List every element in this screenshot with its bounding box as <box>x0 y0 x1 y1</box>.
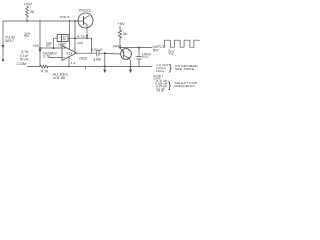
node C3 label (two lines) <box>142 52 151 59</box>
node U1 inside label <box>66 52 72 56</box>
wire bias branch x=104.8 <box>104 53 106 66</box>
node junction dot collector/output <box>119 47 121 49</box>
wire Q2 base <box>105 53 121 55</box>
svg-text:1.4: 1.4 <box>71 62 77 65</box>
svg-text:+5V: +5V <box>24 2 34 6</box>
node note 1 <box>175 64 198 71</box>
svg-text:COM: COM <box>17 62 27 66</box>
node R2 label (two lines) <box>43 51 58 58</box>
svg-text:INPUT: INPUT <box>5 39 14 43</box>
svg-text:CRYS: CRYS <box>58 44 64 48</box>
wire output y=47.6 <box>120 47 152 49</box>
node Q2 label <box>113 45 122 49</box>
node left 3-line label block <box>20 50 29 62</box>
svg-text:}: } <box>168 80 172 91</box>
svg-text:4.7k: 4.7k <box>41 70 49 74</box>
svg-text:+5V: +5V <box>117 22 126 26</box>
node brace 2 <box>168 80 172 91</box>
resistor R2 divider lower (vertical, x=40) <box>39 48 42 67</box>
wire top rail y=21 <box>3 20 84 22</box>
node input arrowhead <box>2 45 5 49</box>
svg-text:}: } <box>169 63 173 74</box>
resistor R3 collector load (vertical, x=120) <box>118 30 121 48</box>
node frequency list group 1 <box>156 63 169 73</box>
node label +5V at divider node <box>32 44 40 48</box>
svg-text:.05 uF: .05 uF <box>156 89 165 93</box>
node junction dot feedback/rail <box>74 20 76 22</box>
svg-text:+5V: +5V <box>32 44 40 48</box>
svg-text:5%: 5% <box>24 34 30 38</box>
transistor Q1 collector stroke <box>84 16 90 19</box>
node +5V supply label (right) <box>117 22 126 26</box>
svg-text:NPO: NPO <box>46 44 51 47</box>
node U1 pin label <box>71 62 77 65</box>
node junction dot crystal branch <box>53 47 55 49</box>
svg-text:220: 220 <box>77 41 83 45</box>
svg-text:1/4 W: 1/4 W <box>53 76 66 80</box>
node input label (two lines) <box>5 36 16 43</box>
svg-text:LM311: LM311 <box>79 56 88 60</box>
op-amp U1 minus sign <box>63 57 65 59</box>
wire noninverting input y=48 <box>40 47 62 49</box>
node junction dot emitter/rail <box>130 66 132 68</box>
capacitor C3 output plate bottom <box>137 58 142 60</box>
node junction dot R1/rail <box>26 20 28 22</box>
capacitor C2 coupling plate right <box>98 50 100 56</box>
node junction dot bias/rail <box>104 66 106 68</box>
svg-text:PIN 8: PIN 8 <box>60 15 70 19</box>
wire input column x=3 <box>2 21 4 59</box>
transistor Q2 circle <box>121 49 132 60</box>
node input terminal dot <box>2 59 4 61</box>
transistor Q1 base bar <box>83 17 85 25</box>
svg-text:MYLAR: MYLAR <box>20 58 29 62</box>
transistor Q2 collector lead <box>120 48 124 53</box>
node junction dot noninverting input <box>39 47 41 49</box>
wire inverting input y=57.5 <box>49 57 62 59</box>
svg-text:0.01uF: 0.01uF <box>91 48 103 52</box>
node note below rail (two lines) <box>53 73 69 80</box>
node junction dot output cap <box>138 47 140 49</box>
wire divider column x=40 upper <box>39 21 41 48</box>
ground symbol left (x=104.8) <box>103 67 106 74</box>
node +5V supply label (top left) <box>24 2 34 6</box>
node junction dot feedback <box>74 37 76 39</box>
resistor R1 pull-up (vertical, x=27) <box>26 7 29 22</box>
op-amp U1 triangle <box>62 46 77 61</box>
transistor Q2 base bar <box>123 51 125 57</box>
wire Q2 emitter lead <box>129 58 130 66</box>
svg-text:100 k: 100 k <box>156 69 165 73</box>
wire U1 ground pin <box>68 57 70 67</box>
node header label group 2 <box>153 74 164 81</box>
svg-text:4.7k: 4.7k <box>77 34 86 38</box>
capacitor C2 coupling plate left <box>96 50 98 56</box>
wire stub below rail <box>85 67 87 69</box>
svg-text:SEE TABLE: SEE TABLE <box>175 67 195 71</box>
ground symbol right (x=130.5) <box>129 67 132 74</box>
wire crystal to feedback node <box>68 37 75 39</box>
svg-text:TTL: TTL <box>169 52 175 56</box>
transistor Q1 circle <box>78 13 93 28</box>
node R3 value label <box>123 32 129 36</box>
crystal Y1 box <box>57 35 68 42</box>
node junction dot V+ pin/rail <box>69 20 71 22</box>
svg-text:311: 311 <box>66 52 72 56</box>
node R5 label <box>41 70 49 74</box>
wire feedback column x=75 <box>74 21 76 53</box>
node note 2 <box>174 81 197 88</box>
svg-text:AL: AL <box>62 37 67 41</box>
resistor R1 value label <box>30 10 36 14</box>
node Y1 inside label <box>62 35 67 41</box>
capacitor C3 output plate top <box>137 56 142 58</box>
node rail-start label <box>17 62 27 66</box>
node bias label <box>93 57 102 61</box>
svg-text:10k: 10k <box>93 57 102 61</box>
node pin label on rail <box>60 15 70 19</box>
wire output cap branch lower <box>138 59 140 67</box>
wire C2 to base node <box>99 52 105 54</box>
waveform square wave output <box>163 40 199 47</box>
svg-text:2N2222: 2N2222 <box>79 9 91 13</box>
wire op-amp V+ pin column x=69.6 <box>69 21 71 49</box>
node Y1 label <box>58 42 66 48</box>
node C1 label <box>46 42 52 47</box>
node Q1 label <box>79 9 91 13</box>
wire bottom rail y=66.5 <box>27 66 152 68</box>
crystal Y1 inner electrode bar <box>61 35 63 40</box>
wire output cap branch x=139 upper <box>138 48 140 57</box>
wire U1 output y=53.2 <box>77 52 97 54</box>
node U1 label below <box>79 56 88 60</box>
node junction dot base bias <box>104 52 106 54</box>
node R4 labels <box>77 34 86 44</box>
svg-text:FREQUENCY: FREQUENCY <box>174 84 195 88</box>
node brace 1 <box>169 63 173 74</box>
node capacitor list group 2 <box>155 79 168 93</box>
node waveform label <box>168 50 175 56</box>
wire Q1 emitter lead down to R4 <box>86 25 88 39</box>
svg-text:2k: 2k <box>30 10 36 14</box>
op-amp U1 plus sign <box>63 47 65 49</box>
svg-text:1k: 1k <box>123 32 129 36</box>
node junction dot divider/rail <box>39 20 41 22</box>
transistor Q1 emitter stroke with arrow <box>84 22 88 25</box>
node divider upper label <box>24 32 31 38</box>
svg-text:DISC: DISC <box>142 55 150 59</box>
node OUTPUT label <box>153 45 165 53</box>
resistor R4 emitter (horizontal) <box>91 38 93 53</box>
transistor Q2 emitter stroke with arrow <box>124 55 130 58</box>
wire emitter branch y=38.2 <box>75 37 92 39</box>
wire +5V lead <box>119 26 121 30</box>
resistor R5 in rail (horizontal) <box>40 65 48 68</box>
wire crystal branch x=55 <box>54 38 58 48</box>
node C2 label above <box>91 48 103 52</box>
svg-text:5V: 5V <box>153 49 160 53</box>
node junction dot U1 ground/rail <box>68 66 70 68</box>
